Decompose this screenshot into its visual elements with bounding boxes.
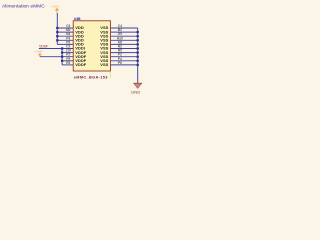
- wire VSS pin8: [111, 56, 138, 58]
- wire VSS pin1: [111, 27, 138, 29]
- wire stub below chip corner: [109, 71, 111, 78]
- wire VDDF pin row9: [62, 60, 73, 62]
- svg-text:VDDF: VDDF: [75, 62, 87, 67]
- svg-text:E5: E5: [66, 61, 70, 65]
- wire +3V3 vertical bus: [56, 13, 58, 44]
- svg-text:GND: GND: [131, 89, 141, 94]
- chip U4B left pin numbers: [66, 24, 72, 65]
- wire VDDF pin row7: [62, 52, 73, 54]
- node label VDDF: [39, 44, 49, 48]
- chip U4B body: [73, 21, 110, 71]
- svg-text:VSS: VSS: [100, 62, 108, 67]
- power +1V8: [35, 50, 43, 57]
- wire VSS pin9: [111, 60, 138, 62]
- ground GND: [131, 83, 142, 94]
- wire VSS pin7: [111, 52, 138, 54]
- svg-text:U4B: U4B: [74, 17, 81, 21]
- power +3V3: [51, 4, 59, 13]
- wire VSS vertical bus to ground: [137, 28, 139, 83]
- junction dots on VSS bus: [137, 31, 139, 66]
- wire VDD pin2: [57, 31, 73, 33]
- wire VDDF net to pin VDDI row: [39, 48, 73, 50]
- junction dots on +3V3 bus: [56, 27, 58, 42]
- svg-text:eMMC_BGA-153: eMMC_BGA-153: [74, 75, 108, 79]
- svg-text:+3V3: +3V3: [51, 4, 59, 8]
- background: [0, 0, 150, 99]
- wire VSS pin10: [111, 64, 138, 66]
- junction dots on VDDF bus: [61, 47, 63, 62]
- svg-text:Alimentation eMMC: Alimentation eMMC: [2, 3, 45, 9]
- svg-text:+1V8: +1V8: [35, 50, 43, 54]
- wire VDD pin4: [57, 39, 73, 41]
- chip U4B right pin names: [100, 25, 108, 67]
- op chip U4B reference label: [74, 17, 81, 21]
- wire VDDF pin row10: [62, 64, 73, 66]
- wire VDD pin3: [57, 35, 73, 37]
- svg-text:VDDF: VDDF: [39, 44, 49, 48]
- chip U4B right pin numbers: [117, 24, 123, 65]
- wire VDD pin1: [57, 27, 73, 29]
- wire VDDF pin row8 from +1V8: [40, 56, 73, 58]
- svg-text:P6: P6: [118, 61, 122, 65]
- wire VDD pin5: [57, 43, 73, 45]
- wire VDDF vertical bus: [61, 49, 63, 65]
- wire VSS pin4: [111, 39, 138, 41]
- wire VSS pin6: [111, 48, 138, 50]
- title text Alimentation eMMC: [2, 3, 45, 9]
- wire VSS pin2: [111, 31, 138, 33]
- chip U4B footprint label eMMC_BGA-153: [74, 75, 108, 79]
- wire VSS pin3: [111, 35, 138, 37]
- chip U4B left pin names: [75, 25, 87, 67]
- wire VSS pin5: [111, 43, 138, 45]
